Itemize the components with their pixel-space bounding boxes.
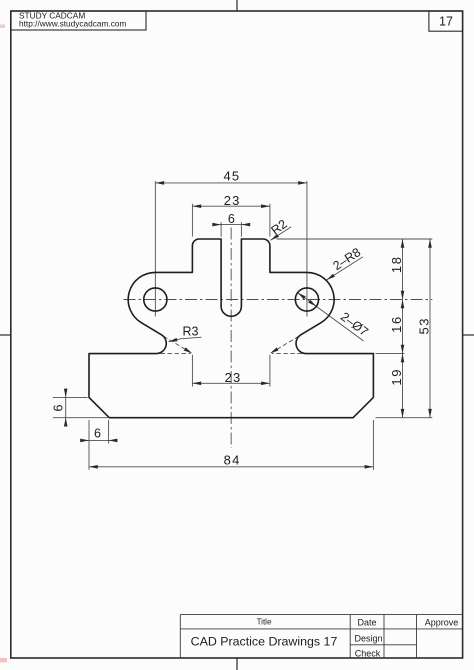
center line left hole <box>154 181 156 317</box>
center line vertical <box>124 181 433 448</box>
sheet number box <box>429 11 463 31</box>
hole left <box>144 288 167 311</box>
svg-text:6: 6 <box>94 427 101 441</box>
svg-text:23: 23 <box>225 370 242 385</box>
svg-text:Check: Check <box>355 648 381 658</box>
dim 19 <box>401 354 405 363</box>
svg-text:6: 6 <box>52 404 66 411</box>
svg-text:84: 84 <box>224 452 241 467</box>
part outline <box>89 239 373 418</box>
svg-text:2–R8: 2–R8 <box>330 245 363 273</box>
dim 45 <box>155 182 307 184</box>
header box <box>11 11 146 30</box>
svg-text:Date: Date <box>357 617 376 627</box>
dim 84 <box>89 420 373 470</box>
scan smudges <box>0 25 5 29</box>
label 2-R8 <box>327 257 363 280</box>
svg-text:CAD Practice Drawings 17: CAD Practice Drawings 17 <box>191 635 338 649</box>
dim 6 top <box>213 222 251 236</box>
dim 53 <box>428 239 432 248</box>
svg-text:16: 16 <box>389 315 404 333</box>
label R2 <box>271 227 292 240</box>
svg-text:R3: R3 <box>183 325 199 339</box>
svg-text:Title: Title <box>257 617 272 626</box>
hole right <box>295 288 318 311</box>
dim line 53 <box>429 239 431 418</box>
center line right hole <box>306 181 308 317</box>
title block <box>180 615 462 658</box>
dim 18 <box>401 239 405 248</box>
svg-text:R2: R2 <box>268 217 289 238</box>
svg-text:6: 6 <box>228 212 235 226</box>
svg-text:Approve: Approve <box>425 617 459 627</box>
svg-text:23: 23 <box>224 193 241 208</box>
label R3 <box>169 337 202 342</box>
dim 23 top <box>192 204 270 237</box>
svg-text:53: 53 <box>417 317 432 335</box>
dim line 18-16-19 <box>402 239 404 418</box>
svg-text:Design: Design <box>354 633 382 643</box>
apex dashes right <box>272 353 302 355</box>
apex dashes left <box>161 353 191 355</box>
dim 6 vertical left <box>53 389 108 426</box>
dim 6 horizontal bottom <box>81 420 118 444</box>
svg-text:http://www.studycadcam.com: http://www.studycadcam.com <box>19 19 127 29</box>
dim 23 bottom <box>161 336 302 386</box>
svg-text:18: 18 <box>389 255 404 273</box>
svg-text:19: 19 <box>389 368 404 386</box>
dim 16 <box>401 300 405 309</box>
svg-text:45: 45 <box>223 169 240 184</box>
right side extension lines <box>277 239 433 418</box>
svg-text:17: 17 <box>439 15 453 29</box>
center line horizontal <box>124 299 433 301</box>
label 2-diam7 <box>298 293 364 341</box>
